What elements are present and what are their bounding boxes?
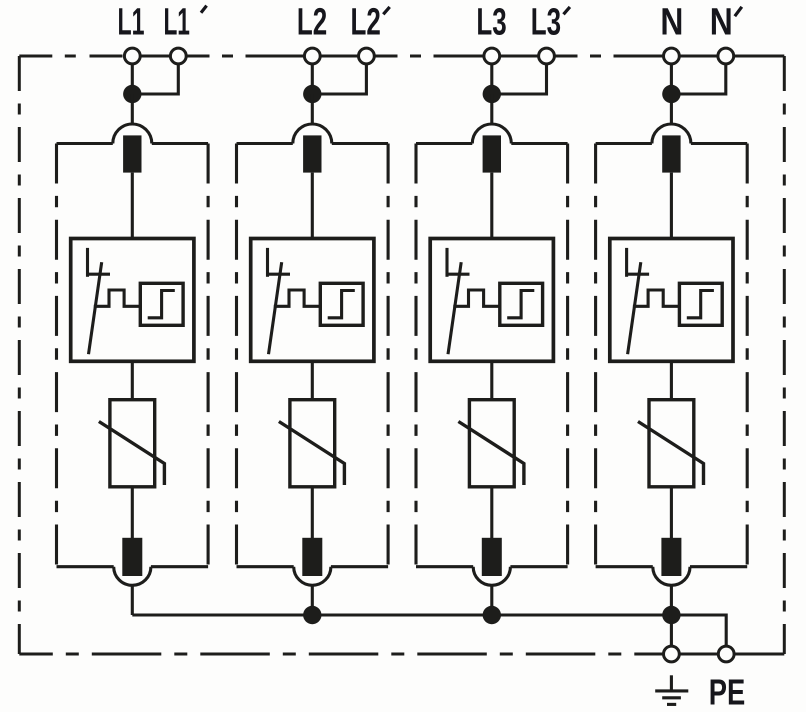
terminal L1': [170, 48, 186, 64]
disconnect switch symbol: blade: [628, 262, 641, 354]
svg-text:N: N: [710, 2, 733, 44]
SPD module N inner box, right side chain line: [746, 144, 749, 567]
wire bus junction right and down to PE' terminal: [671, 615, 726, 648]
wire L2' terminal down and left to junction: [312, 56, 366, 94]
thermal disconnector arch (top): [652, 124, 691, 144]
trigger unit box (spark-gap control): [430, 239, 553, 362]
SPD module L3 inner box, left side chain line: [414, 144, 417, 567]
outer border, bottom solid run PE..PE..corner: [663, 653, 785, 656]
terminal L1: [124, 48, 140, 64]
SPD module L1 inner dash-dot box, top edge with disconnector arch: [57, 142, 209, 145]
node junction L2: [303, 85, 321, 103]
outer border, chain segment L3..N: [556, 55, 662, 58]
SPD module N inner box, bottom edge with disconnector cup: [596, 565, 748, 568]
top fuse element (thermal disconnector) black bar: [123, 135, 141, 172]
disconnect switch symbol: contact T-bar: [268, 273, 291, 276]
thermal disconnector arch (top): [472, 124, 511, 144]
svg-text:L3: L3: [476, 2, 506, 44]
outer border, solid run under N/N terminals to top-right corner: [662, 55, 785, 58]
top fuse element (thermal disconnector) black bar: [483, 135, 501, 172]
outer border, bottom chain line left of PE terminal: [19, 653, 662, 656]
wire varistor to bottom disconnector: [311, 487, 314, 541]
wire disconnector to trigger unit: [490, 173, 493, 239]
varistor diagonal stroke with tail: [99, 422, 164, 486]
SPD module L3 inner dash-dot box, top edge with disconnector arch: [416, 142, 568, 145]
outer enclosure dash-dot border, top-left segment: [19, 55, 123, 58]
PE bus wire: [132, 613, 671, 616]
disconnect switch symbol: blade: [89, 262, 102, 354]
wire L1 terminal to junction: [131, 56, 134, 94]
outer border, right side chain line: [783, 56, 786, 654]
wire varistor to bottom disconnector: [131, 487, 134, 541]
wire disconnector to trigger unit: [311, 173, 314, 239]
SPD module L1 inner box, left side chain line: [55, 144, 58, 567]
bottom fuse element (disconnector) black bar: [482, 538, 502, 576]
wire trigger unit to varistor: [311, 361, 314, 399]
svg-text:L3: L3: [531, 2, 561, 44]
outer border, solid run under L2/L2 terminals: [303, 55, 376, 58]
terminal PE (to ground): [664, 646, 680, 662]
SPD module N inner box, left side chain line: [594, 144, 597, 567]
SPD module L2 inner box, bottom edge with disconnector cup: [237, 565, 389, 568]
trigger unit box (spark-gap control): [251, 239, 374, 362]
ground symbol bar 2: [662, 696, 681, 699]
SPD module L1 inner box, bottom edge with disconnector cup: [57, 565, 209, 568]
wire trigger unit to varistor: [490, 361, 493, 399]
impulse step symbol inside box: [148, 291, 175, 318]
wire junction to top thermal disconnector: [490, 94, 493, 125]
SPD module L2 inner box, left side chain line: [235, 144, 238, 567]
terminal L3': [539, 48, 555, 64]
node bus junction L3: [483, 606, 501, 624]
node bus junction N / PE takeoff: [662, 606, 680, 624]
svg-text:L1: L1: [118, 2, 145, 44]
step waveform link to impulse box: [633, 290, 680, 306]
wire L1' terminal down and left to junction: [132, 56, 178, 94]
wire trigger unit to varistor: [670, 361, 673, 399]
SPD module N inner dash-dot box, top edge with disconnector arch: [596, 142, 748, 145]
bottom disconnector cup arc: [294, 567, 331, 586]
impulse generator box: [320, 283, 363, 325]
varistor diagonal stroke with tail: [279, 422, 345, 486]
svg-text:L2: L2: [297, 2, 327, 44]
ground symbol bar 1: [655, 689, 688, 692]
varistor body: [110, 400, 155, 487]
bottom disconnector cup arc: [114, 567, 151, 586]
wire disconnector to trigger unit: [131, 173, 134, 239]
trigger unit box (spark-gap control): [610, 239, 733, 362]
disconnect switch symbol: contact stem: [86, 248, 89, 277]
wire L3 terminal to junction: [490, 56, 493, 94]
outer border, solid run under L3/L3 terminals: [483, 55, 556, 58]
wire varistor to bottom disconnector: [490, 487, 493, 541]
top fuse element (thermal disconnector) black bar: [662, 135, 680, 172]
bottom fuse element (disconnector) black bar: [302, 538, 322, 576]
ground symbol stem: [670, 675, 673, 691]
disconnect switch symbol: blade: [448, 262, 461, 354]
terminal L2': [359, 48, 375, 64]
varistor diagonal stroke with tail: [458, 422, 524, 486]
bottom fuse element (disconnector) black bar: [122, 538, 142, 576]
outer border, left side chain line: [18, 56, 21, 654]
varistor body: [290, 400, 335, 487]
svg-text:L2: L2: [351, 2, 381, 44]
impulse generator box: [679, 283, 722, 325]
step waveform link to impulse box: [453, 290, 500, 306]
wire disconnector to trigger unit: [670, 173, 673, 239]
SPD module L3 inner box, bottom edge with disconnector cup: [416, 565, 568, 568]
wire trigger unit to varistor: [131, 361, 134, 399]
impulse generator box: [500, 283, 543, 325]
disconnect switch symbol: contact T-bar: [88, 273, 111, 276]
node junction L1: [123, 85, 141, 103]
impulse generator box: [140, 283, 183, 325]
svg-text:N: N: [660, 2, 683, 44]
impulse step symbol inside box: [687, 291, 714, 318]
node junction N: [662, 85, 680, 103]
varistor body: [649, 400, 694, 487]
wire L2 terminal to junction: [311, 56, 314, 94]
disconnect switch symbol: contact stem: [266, 248, 269, 277]
SPD module L3 inner box, right side chain line: [566, 144, 569, 567]
svg-text:PE: PE: [709, 672, 746, 712]
disconnect switch symbol: blade: [269, 262, 282, 354]
terminal L3: [484, 48, 500, 64]
wire junction to top thermal disconnector: [670, 94, 673, 125]
wire N' terminal down and left to junction: [671, 56, 725, 94]
wire junction to top thermal disconnector: [311, 94, 314, 125]
step waveform link to impulse box: [274, 290, 321, 306]
top fuse element (thermal disconnector) black bar: [303, 135, 321, 172]
trigger unit box (spark-gap control): [71, 239, 194, 362]
varistor body: [469, 400, 514, 487]
node bus junction L2: [303, 606, 321, 624]
bottom disconnector cup arc: [653, 567, 690, 586]
bottom fuse element (disconnector) black bar: [661, 538, 681, 576]
terminal N: [664, 48, 680, 64]
wire junction to top thermal disconnector: [131, 94, 134, 125]
outer border, chain segment L1..L2: [188, 55, 304, 58]
svg-text:L1: L1: [163, 2, 190, 44]
node junction L3: [483, 85, 501, 103]
wire bottom disconnector to PE bus: [131, 584, 134, 615]
impulse step symbol inside box: [507, 291, 534, 318]
ground symbol bar 3: [667, 703, 676, 706]
thermal disconnector arch (top): [293, 124, 332, 144]
wire bottom disconnector to PE bus: [490, 584, 493, 615]
wire bus junction down to PE terminal: [670, 615, 673, 648]
varistor diagonal stroke with tail: [638, 422, 704, 486]
wire L3' terminal down and left to junction: [492, 56, 547, 94]
terminal N': [718, 48, 734, 64]
impulse step symbol inside box: [328, 291, 355, 318]
disconnect switch symbol: contact stem: [625, 248, 628, 277]
terminal PE': [718, 646, 734, 662]
SPD module L2 inner dash-dot box, top edge with disconnector arch: [237, 142, 389, 145]
wire bottom disconnector to PE bus: [311, 584, 314, 615]
disconnect switch symbol: contact T-bar: [627, 273, 650, 276]
step waveform link to impulse box: [94, 290, 141, 306]
outer border, chain segment L2..L3: [376, 55, 483, 58]
bottom disconnector cup arc: [473, 567, 510, 586]
wire bottom disconnector to PE bus: [670, 584, 673, 615]
wire N terminal to junction: [670, 56, 673, 94]
wire varistor to bottom disconnector: [670, 487, 673, 541]
terminal L2: [304, 48, 320, 64]
SPD module L1 inner box, right side chain line: [207, 144, 210, 567]
thermal disconnector arch (top): [113, 124, 152, 144]
disconnect switch symbol: contact stem: [445, 248, 448, 277]
disconnect switch symbol: contact T-bar: [447, 273, 470, 276]
SPD module L2 inner box, right side chain line: [387, 144, 390, 567]
outer border, solid run under L1/L1 terminals: [123, 55, 188, 58]
